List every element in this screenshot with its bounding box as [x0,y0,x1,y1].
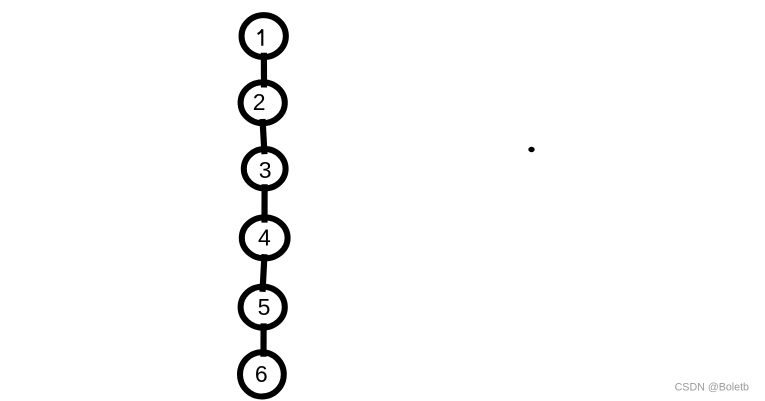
svg-text:3: 3 [259,157,272,183]
wire 4-5 [263,254,265,292]
node 2 [241,82,285,123]
node 6 [240,352,284,396]
svg-text:5: 5 [258,294,271,320]
node 5 [241,287,285,328]
dot [528,147,534,152]
wire 1-2 [261,53,267,88]
wire 3-4 [261,184,267,222]
wire 2-3 [263,119,265,154]
svg-text:4: 4 [258,225,271,251]
wire 5-6 [260,323,266,356]
svg-text:2: 2 [253,89,266,115]
node 1 [242,15,286,57]
node 3 [244,149,286,188]
svg-text:6: 6 [255,361,268,387]
svg-text:CSDN @Boletb: CSDN @Boletb [675,381,749,393]
node 4 [242,217,288,258]
